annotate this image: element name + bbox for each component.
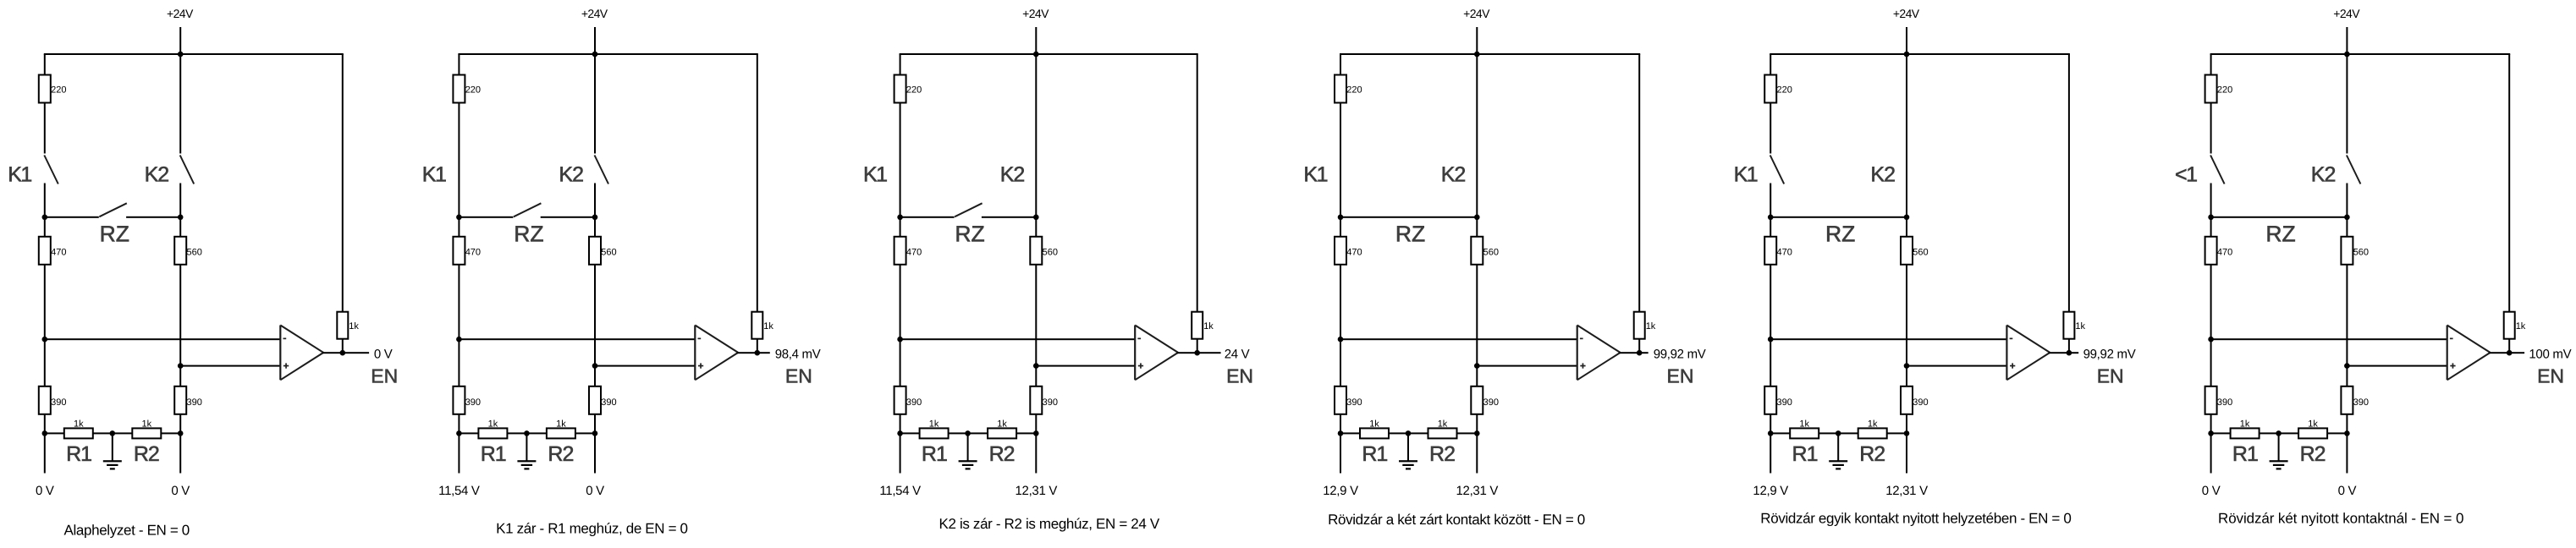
wire bottom stub left [44,433,46,473]
svg-text:1k: 1k [2240,419,2250,430]
junction bottom rail centre [1406,430,1412,436]
svg-text:100 mV: 100 mV [2529,348,2571,362]
wire R390 left to bottom rail [900,414,901,434]
wire bottom rail [1340,432,1477,434]
junction bottom rail right [1904,430,1910,436]
wire top rail [1770,53,2070,55]
switch RZ (circuit 1) [45,216,99,218]
op-amp non-inverting pin marker + [1138,365,1143,367]
junction K1 branch / inverting input [2208,337,2214,342]
wire top rail [900,53,1198,55]
wire rail to R 220 [1340,54,1341,75]
op-amp U6 triangle [2447,326,2448,381]
wire R 560 to R 390 [2346,265,2348,386]
svg-text:RZ: RZ [514,222,543,247]
resistor 470 (circuit 3) [894,237,906,265]
wire R 560 to R 390 [1035,265,1037,386]
svg-text:1k: 1k [2075,321,2085,332]
svg-text:+24V: +24V [167,7,194,20]
junction bottom rail centre [110,430,116,436]
svg-text:0 V: 0 V [171,484,190,498]
resistor 390 right (circuit 6) [2341,386,2353,414]
junction bottom rail centre [524,430,530,436]
resistor 470 (circuit 4) [1335,237,1346,265]
wire bottom stub right [1476,433,1478,473]
svg-text:390: 390 [906,397,922,408]
wire non-inverting input [1477,365,1577,367]
wire rail to R 1k pull-up [342,54,344,312]
switch K2 (circuit 1) [179,54,181,154]
svg-text:EN: EN [2537,364,2564,386]
op-amp U3 triangle [1134,326,1136,381]
svg-text:98,4 mV: 98,4 mV [775,348,821,362]
svg-text:1k: 1k [763,321,773,332]
svg-text:EN: EN [1226,364,1253,386]
switch K1 (circuit 4) [1340,103,1341,217]
svg-text:Rövidzár egyik kontakt nyitott: Rövidzár egyik kontakt nyitott helyzetéb… [1760,510,2071,526]
wire inverting input [900,338,1136,340]
resistor 220 (circuit 2) [453,75,465,103]
ground (circuit 6) [2278,433,2280,461]
op-amp non-inverting pin marker + [2450,365,2455,367]
junction K2 branch / non-inverting input [1474,363,1480,369]
resistor R1 1k (circuit 6) [2231,428,2260,438]
resistor 390 left (circuit 3) [894,386,906,414]
junction +24V/rail [1904,52,1910,58]
wire inverting input [1770,338,2006,340]
junction output node EN [2067,350,2072,356]
svg-text:1k: 1k [1799,419,1809,430]
wire op-amp output [737,352,770,353]
wire rail to R 1k pull-up [1638,54,1640,312]
junction bottom rail right [592,430,598,436]
wire RZ node to R 560 [1906,217,1907,237]
svg-text:R2: R2 [2300,442,2326,466]
svg-text:390: 390 [1913,397,1928,408]
wire bottom rail [1770,432,1907,434]
wire R390 right to bottom rail [179,414,181,434]
junction +24V/rail [178,52,184,58]
svg-text:RZ: RZ [2265,222,2295,247]
svg-text:+24V: +24V [1022,7,1049,20]
junction K2 branch / non-inverting input [1904,363,1910,369]
svg-text:R2: R2 [548,442,573,466]
wire rail to R 1k pull-up [2068,54,2070,312]
wire R 560 to R 390 [1476,265,1478,386]
resistor 390 right (circuit 2) [589,386,601,414]
wire non-inverting input [2347,365,2447,367]
wire inverting input [1340,338,1577,340]
svg-text:470: 470 [51,247,66,257]
svg-text:560: 560 [2353,247,2369,257]
junction K2/RZ [1904,214,1910,220]
op-amp inverting pin marker - [698,338,702,340]
wire non-inverting input [180,365,280,367]
resistor 560 (circuit 1) [174,237,186,265]
junction +24V/rail [2344,52,2350,58]
junction K1/RZ [1338,214,1344,220]
svg-text:390: 390 [601,397,616,408]
svg-text:390: 390 [1483,397,1499,408]
svg-text:11,54 V: 11,54 V [879,484,921,498]
svg-text:390: 390 [187,397,202,408]
op-amp U5 triangle [2006,326,2007,381]
junction bottom rail centre [965,430,971,436]
wire +24V stub [179,27,181,54]
svg-text:K1: K1 [1734,163,1758,187]
wire R 470 to R 390 [44,265,46,386]
wire R 560 to R 390 [594,265,596,386]
junction bottom rail right [1033,430,1039,436]
wire non-inverting input [1907,365,2006,367]
wire bottom stub left [2210,433,2212,473]
junction bottom rail left [42,430,48,436]
svg-text:470: 470 [465,247,481,257]
svg-text:R1: R1 [66,442,91,466]
switch RZ (circuit 3) [900,216,955,218]
resistor 1k pull-up (circuit 5) [2063,312,2074,339]
op-amp non-inverting pin marker + [2010,365,2015,367]
switch K1 (circuit 2) [458,103,460,217]
svg-text:R2: R2 [989,442,1015,466]
svg-text:99,92 mV: 99,92 mV [1654,348,1706,362]
resistor R1 1k (circuit 5) [1790,428,1819,438]
junction output node EN [1637,350,1643,356]
svg-text:220: 220 [2217,85,2232,96]
svg-text:R2: R2 [1859,442,1885,466]
svg-text:Rövidzár a két zárt kontakt kö: Rövidzár a két zárt kontakt között - EN … [1328,512,1585,528]
junction bottom rail right [1474,430,1480,436]
svg-text:12,9 V: 12,9 V [1753,484,1788,498]
wire R 470 to R 390 [1340,265,1341,386]
wire RZ node to R 470 [1340,217,1341,237]
ground (circuit 2) [526,433,527,461]
wire inverting input [45,338,281,340]
resistor R2 1k (circuit 3) [988,428,1016,438]
wire R 470 to R 390 [900,265,901,386]
junction bottom rail left [456,430,462,436]
svg-text:K1: K1 [863,163,887,187]
svg-text:R1: R1 [481,442,506,466]
junction K2/RZ [1474,214,1480,220]
junction +24V/rail [592,52,598,58]
ground (circuit 4) [1407,433,1409,461]
wire bottom stub left [458,433,460,473]
svg-text:99,92 mV: 99,92 mV [2083,348,2136,362]
svg-text:K1: K1 [1303,163,1327,187]
svg-text:K2: K2 [559,163,583,187]
switch K1 (circuit 5) [1770,103,1771,154]
wire R 1k to output node [2068,339,2070,353]
resistor 390 left (circuit 5) [1764,386,1776,414]
svg-text:1k: 1k [929,419,939,430]
svg-text:R1: R1 [1362,442,1387,466]
junction K1 branch / inverting input [1338,337,1344,342]
svg-text:1k: 1k [141,419,151,430]
wire rail to R 220 [44,54,46,75]
junction K1/RZ [42,214,48,220]
svg-text:K1: K1 [8,163,31,187]
resistor R1 1k (circuit 1) [64,428,93,438]
svg-text:1k: 1k [556,419,566,430]
wire bottom rail [2211,432,2348,434]
svg-text:390: 390 [1777,397,1792,408]
junction K2/RZ [2344,214,2350,220]
junction output node EN [755,350,761,356]
junction bottom rail left [897,430,903,436]
resistor 220 (circuit 6) [2205,75,2217,103]
wire bottom rail [45,432,180,434]
wire R390 right to bottom rail [2346,414,2348,434]
svg-text:12,9 V: 12,9 V [1323,484,1358,498]
svg-text:390: 390 [2353,397,2369,408]
svg-text:220: 220 [465,85,481,96]
junction K1 branch / inverting input [1768,337,1774,342]
wire RZ node to R 470 [458,217,460,237]
resistor R1 1k (circuit 2) [478,428,507,438]
switch K2 (circuit 5) [1906,54,1907,217]
op-amp U1 triangle [279,326,281,381]
wire +24V stub [1476,27,1478,54]
svg-text:560: 560 [1043,247,1058,257]
op-amp inverting pin marker - [2450,338,2453,340]
op-amp inverting pin marker - [1580,338,1583,340]
svg-text:0 V: 0 V [36,484,54,498]
junction K1 branch / inverting input [456,337,462,342]
wire bottom rail [900,432,1037,434]
op-amp U4 triangle [1577,326,1578,381]
wire R390 left to bottom rail [1340,414,1341,434]
op-amp U2 triangle [694,326,696,381]
wire op-amp output [322,352,369,353]
svg-text:1k: 1k [2308,419,2318,430]
resistor 470 (circuit 1) [39,237,51,265]
resistor 390 left (circuit 4) [1335,386,1346,414]
junction output node EN [2507,350,2513,356]
svg-text:K2: K2 [1870,163,1895,187]
wire bottom stub left [1770,433,1771,473]
wire R390 left to bottom rail [458,414,460,434]
resistor 220 (circuit 4) [1335,75,1346,103]
resistor 560 (circuit 3) [1030,237,1042,265]
wire top rail [2210,53,2511,55]
wire rail to R 220 [900,54,901,75]
svg-text:470: 470 [906,247,922,257]
svg-text:1k: 1k [1203,321,1214,332]
ground (circuit 1) [112,433,113,461]
resistor 1k pull-up (circuit 6) [2504,312,2515,339]
resistor R1 1k (circuit 3) [920,428,949,438]
junction output node EN [1194,350,1200,356]
svg-text:470: 470 [1777,247,1792,257]
svg-text:EN: EN [1667,364,1694,386]
wire +24V stub [1035,27,1037,54]
svg-text:470: 470 [1346,247,1362,257]
wire bottom stub right [1906,433,1907,473]
svg-text:1k: 1k [997,419,1007,430]
wire R 1k to output node [1638,339,1640,353]
svg-text:EN: EN [371,364,398,386]
resistor 1k pull-up (circuit 2) [751,312,762,339]
wire bottom stub left [900,433,901,473]
switch K2 (circuit 3) [1035,54,1037,217]
resistor 390 left (circuit 1) [39,386,51,414]
wire R 1k to output node [1197,339,1198,353]
junction K2 branch / non-inverting input [2344,363,2350,369]
svg-text:560: 560 [1913,247,1928,257]
junction K1/RZ [897,214,903,220]
junction bottom rail centre [1836,430,1841,436]
junction K1 branch / inverting input [42,337,48,342]
resistor 1k pull-up (circuit 1) [337,312,348,339]
svg-text:220: 220 [51,85,66,96]
wire inverting input [2211,338,2447,340]
junction K2 branch / non-inverting input [1033,363,1039,369]
wire op-amp output [1620,352,1649,353]
wire top rail [44,53,344,55]
junction K2 branch / non-inverting input [592,363,598,369]
wire bottom stub left [1340,433,1341,473]
junction K2/RZ [592,214,598,220]
wire bottom rail [459,432,595,434]
svg-text:K1: K1 [422,163,446,187]
resistor 1k pull-up (circuit 4) [1634,312,1645,339]
wire +24V stub [594,27,596,54]
svg-text:24 V: 24 V [1225,348,1250,362]
junction K1/RZ [2208,214,2214,220]
wire R 470 to R 390 [1770,265,1771,386]
junction bottom rail left [1338,430,1344,436]
svg-text:390: 390 [1043,397,1058,408]
switch RZ (circuit 2) [459,216,513,218]
wire bottom stub right [1035,433,1037,473]
svg-text:390: 390 [51,397,66,408]
resistor R2 1k (circuit 5) [1858,428,1887,438]
wire top rail [1340,53,1640,55]
svg-text:R1: R1 [922,442,947,466]
wire R390 right to bottom rail [1906,414,1907,434]
ground (circuit 3) [967,433,969,461]
op-amp inverting pin marker - [283,338,287,340]
resistor 560 (circuit 5) [1901,237,1913,265]
junction +24V/rail [1474,52,1480,58]
wire R 1k to output node [342,339,344,353]
wire RZ node to R 470 [900,217,901,237]
wire RZ node to R 560 [1035,217,1037,237]
wire R 470 to R 390 [2210,265,2212,386]
junction K1/RZ [456,214,462,220]
svg-text:1k: 1k [1868,419,1878,430]
junction K2/RZ [1033,214,1039,220]
svg-text:0 V: 0 V [2202,484,2221,498]
svg-text:1k: 1k [1646,321,1656,332]
wire R390 left to bottom rail [1770,414,1771,434]
svg-text:RZ: RZ [100,222,129,247]
wire +24V stub [2346,27,2348,54]
resistor 390 right (circuit 1) [174,386,186,414]
wire bottom stub right [2346,433,2348,473]
svg-text:Rövidzár két nyitott kontaktná: Rövidzár két nyitott kontaktnál - EN = 0 [2218,511,2463,527]
wire R 560 to R 390 [179,265,181,386]
svg-text:560: 560 [601,247,616,257]
wire rail to R 220 [458,54,460,75]
junction K1 branch / inverting input [897,337,903,342]
switch K2 (circuit 4) [1476,54,1478,217]
op-amp inverting pin marker - [1137,338,1141,340]
resistor 390 left (circuit 6) [2205,386,2217,414]
junction K1/RZ [1768,214,1774,220]
wire RZ node to R 470 [1770,217,1771,237]
wire rail to R 220 [1770,54,1771,75]
svg-text:220: 220 [1777,85,1792,96]
svg-text:EN: EN [785,364,812,386]
svg-text:R2: R2 [134,442,159,466]
svg-text:220: 220 [906,85,922,96]
resistor R2 1k (circuit 2) [547,428,575,438]
resistor 560 (circuit 6) [2341,237,2353,265]
wire RZ node to R 560 [179,217,181,237]
resistor 390 right (circuit 5) [1901,386,1913,414]
svg-text:RZ: RZ [1825,222,1855,247]
resistor 220 (circuit 1) [39,75,51,103]
resistor 220 (circuit 3) [894,75,906,103]
switch K2 (circuit 6) [2346,54,2348,154]
svg-text:12,31 V: 12,31 V [1885,484,1928,498]
svg-text:R2: R2 [1429,442,1455,466]
svg-text:1k: 1k [488,419,498,430]
junction bottom rail left [1768,430,1774,436]
resistor 470 (circuit 5) [1764,237,1776,265]
resistor 1k pull-up (circuit 3) [1192,312,1203,339]
wire op-amp output [1177,352,1221,353]
svg-text:Alaphelyzet - EN = 0: Alaphelyzet - EN = 0 [63,523,189,539]
resistor 560 (circuit 4) [1471,237,1483,265]
ground (circuit 5) [1837,433,1839,461]
resistor R2 1k (circuit 1) [132,428,161,438]
wire op-amp output [2049,352,2078,353]
switch K2 (circuit 2) [594,54,596,154]
svg-text:0 V: 0 V [374,348,393,362]
wire top rail [458,53,757,55]
resistor R2 1k (circuit 4) [1428,428,1457,438]
svg-text:+24V: +24V [2333,7,2360,20]
wire R390 right to bottom rail [1476,414,1478,434]
switch RZ (circuit 6) [2211,216,2348,218]
junction +24V/rail [1033,52,1039,58]
svg-text:RZ: RZ [1395,222,1425,247]
resistor 390 left (circuit 2) [453,386,465,414]
svg-text:0 V: 0 V [2338,484,2357,498]
svg-text:1k: 1k [2516,321,2526,332]
wire R390 right to bottom rail [1035,414,1037,434]
svg-text:K2 is zár - R2 is meghúz, EN =: K2 is zár - R2 is meghúz, EN = 24 V [939,516,1160,532]
wire +24V stub [1906,27,1907,54]
op-amp non-inverting pin marker + [698,365,703,367]
resistor 470 (circuit 2) [453,237,465,265]
resistor 390 right (circuit 3) [1030,386,1042,414]
svg-text:560: 560 [187,247,202,257]
svg-text:R1: R1 [2232,442,2258,466]
wire non-inverting input [1036,365,1135,367]
switch K1 (circuit 1) [44,103,46,154]
junction bottom rail right [2344,430,2350,436]
svg-text:470: 470 [2217,247,2232,257]
wire R 1k to output node [2508,339,2510,353]
junction bottom rail left [2208,430,2214,436]
wire RZ node to R 470 [2210,217,2212,237]
wire R390 left to bottom rail [2210,414,2212,434]
svg-text:K2: K2 [145,163,169,187]
